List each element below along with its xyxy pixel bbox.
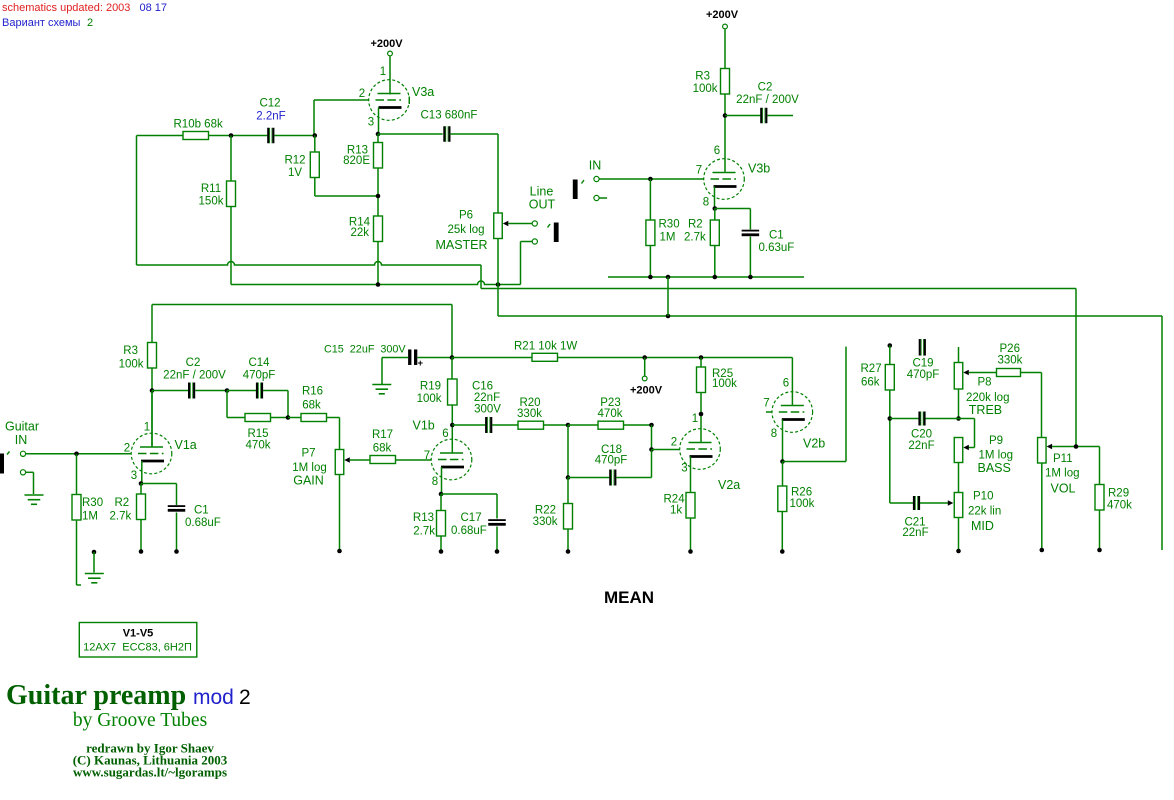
svg-text:470pF: 470pF xyxy=(595,455,628,467)
svg-text:V3b: V3b xyxy=(748,162,770,176)
svg-text:1V: 1V xyxy=(288,167,302,179)
svg-text:Guitar preamp: Guitar preamp xyxy=(6,680,186,711)
svg-text:1M log: 1M log xyxy=(979,449,1014,461)
svg-text:V3a: V3a xyxy=(412,85,434,99)
svg-text:100k: 100k xyxy=(417,393,442,405)
svg-text:3: 3 xyxy=(368,117,374,129)
svg-text:7: 7 xyxy=(696,165,702,177)
svg-text:6: 6 xyxy=(442,428,448,440)
svg-text:V1a: V1a xyxy=(175,438,197,452)
svg-text:2.7k: 2.7k xyxy=(110,511,132,523)
svg-text:by Groove Tubes: by Groove Tubes xyxy=(73,710,207,731)
svg-text:8: 8 xyxy=(703,197,709,209)
svg-text:C16: C16 xyxy=(472,381,493,393)
svg-text:2: 2 xyxy=(124,443,130,455)
svg-text:Вариант схемы: Вариант схемы xyxy=(2,17,81,29)
svg-text:2: 2 xyxy=(671,437,677,449)
svg-text:1M: 1M xyxy=(660,232,676,244)
svg-text:22nF: 22nF xyxy=(474,392,500,404)
svg-text:3: 3 xyxy=(131,470,137,482)
svg-text:22nF / 200V: 22nF / 200V xyxy=(736,94,799,106)
svg-text:C1: C1 xyxy=(769,230,784,242)
svg-text:2: 2 xyxy=(87,17,93,29)
svg-text:R2: R2 xyxy=(115,497,130,509)
svg-text:R26: R26 xyxy=(791,487,812,499)
svg-text:C17: C17 xyxy=(461,512,482,524)
svg-text:GAIN: GAIN xyxy=(293,474,324,488)
svg-text:1k: 1k xyxy=(670,505,682,517)
svg-text:V1b: V1b xyxy=(413,419,435,433)
svg-text:C19: C19 xyxy=(912,357,933,369)
svg-text:1: 1 xyxy=(380,66,386,78)
svg-text:R27: R27 xyxy=(861,363,882,375)
svg-text:mod: mod xyxy=(193,686,234,709)
svg-text:P11: P11 xyxy=(1053,453,1073,465)
svg-text:V2a: V2a xyxy=(718,478,740,492)
svg-text:8: 8 xyxy=(432,476,438,488)
svg-text:VOL: VOL xyxy=(1051,482,1076,496)
svg-text:BASS: BASS xyxy=(978,461,1011,475)
svg-text:2.7k: 2.7k xyxy=(684,232,706,244)
svg-text:R2: R2 xyxy=(688,219,703,231)
svg-text:12AX7 ECC83, 6Н2П: 12AX7 ECC83, 6Н2П xyxy=(83,642,192,654)
svg-text:R11: R11 xyxy=(201,183,221,195)
svg-text:2.2nF: 2.2nF xyxy=(256,111,285,123)
svg-text:R17: R17 xyxy=(372,429,393,441)
svg-text:Guitar: Guitar xyxy=(5,420,39,434)
svg-text:100k: 100k xyxy=(790,498,815,510)
svg-text:7: 7 xyxy=(424,450,430,462)
svg-text:+200V: +200V xyxy=(630,385,663,397)
svg-text:25k log: 25k log xyxy=(447,224,484,236)
svg-text:2: 2 xyxy=(239,686,251,709)
svg-text:R13: R13 xyxy=(413,512,434,524)
svg-text:IN: IN xyxy=(15,433,28,447)
svg-text:100k: 100k xyxy=(693,83,718,95)
svg-text:schematics updated: 2003: schematics updated: 2003 xyxy=(2,2,130,14)
svg-text:R29: R29 xyxy=(1108,488,1129,500)
svg-text:470pF: 470pF xyxy=(243,370,276,382)
svg-text:330k: 330k xyxy=(533,516,558,528)
svg-text:820E: 820E xyxy=(343,155,370,167)
svg-text:C1: C1 xyxy=(194,505,209,517)
svg-text:C20: C20 xyxy=(911,428,932,440)
svg-text:3: 3 xyxy=(681,463,687,475)
svg-text:R15: R15 xyxy=(247,428,268,440)
svg-text:8: 8 xyxy=(771,428,777,440)
svg-text:V1-V5: V1-V5 xyxy=(123,628,154,640)
svg-text:R3: R3 xyxy=(123,345,138,357)
svg-text:MEAN: MEAN xyxy=(604,588,654,607)
svg-text:1: 1 xyxy=(144,422,150,434)
svg-text:R30: R30 xyxy=(82,497,103,509)
svg-text:C2: C2 xyxy=(758,82,773,94)
svg-text:P10: P10 xyxy=(973,491,993,503)
svg-text:2: 2 xyxy=(359,88,365,100)
svg-text:100k: 100k xyxy=(712,378,737,390)
svg-text:www.sugardas.lt/~lgoramps: www.sugardas.lt/~lgoramps xyxy=(73,765,227,780)
svg-text:R21 10k 1W: R21 10k 1W xyxy=(514,341,577,353)
svg-text:R30: R30 xyxy=(659,219,680,231)
svg-text:7: 7 xyxy=(763,398,769,410)
svg-text:P26: P26 xyxy=(1000,343,1020,355)
svg-text:R22: R22 xyxy=(535,505,556,517)
svg-text:66k: 66k xyxy=(861,377,880,389)
svg-text:22k: 22k xyxy=(350,227,369,239)
svg-text:22nF / 200V: 22nF / 200V xyxy=(163,370,226,382)
svg-text:68k: 68k xyxy=(302,400,321,412)
svg-text:220k log: 220k log xyxy=(966,392,1009,404)
svg-text:150k: 150k xyxy=(199,196,224,208)
svg-text:330k: 330k xyxy=(998,355,1023,367)
svg-text:470k: 470k xyxy=(246,440,271,452)
svg-text:OUT: OUT xyxy=(529,198,556,212)
svg-text:22nF: 22nF xyxy=(902,527,928,539)
svg-text:P7: P7 xyxy=(301,448,315,460)
svg-text:R19: R19 xyxy=(420,381,441,393)
svg-text:2.7k: 2.7k xyxy=(413,526,435,538)
svg-text:R10b 68k: R10b 68k xyxy=(174,119,223,131)
svg-text:0.68uF: 0.68uF xyxy=(185,517,221,529)
svg-text:P6: P6 xyxy=(459,210,473,222)
svg-text:68k: 68k xyxy=(373,443,392,455)
svg-text:22nF: 22nF xyxy=(908,440,934,452)
svg-text:330k: 330k xyxy=(517,408,542,420)
svg-text:R16: R16 xyxy=(302,386,323,398)
svg-text:+200V: +200V xyxy=(706,9,739,21)
svg-text:1M log: 1M log xyxy=(1045,468,1080,480)
svg-text:IN: IN xyxy=(589,159,602,173)
svg-text:C15 22uF 300V: C15 22uF 300V xyxy=(324,344,406,356)
svg-text:22k lin: 22k lin xyxy=(968,506,1001,518)
svg-text:470k: 470k xyxy=(598,408,623,420)
svg-text:1M: 1M xyxy=(82,511,98,523)
svg-text:P8: P8 xyxy=(978,377,992,389)
svg-text:TREB: TREB xyxy=(969,403,1002,417)
svg-text:R3: R3 xyxy=(695,71,710,83)
svg-text:1M log: 1M log xyxy=(292,462,327,474)
svg-text:R12: R12 xyxy=(284,155,305,167)
svg-text:1: 1 xyxy=(692,413,698,425)
svg-text:+: + xyxy=(418,358,424,369)
svg-text:C13 680nF: C13 680nF xyxy=(421,110,478,122)
svg-text:+200V: +200V xyxy=(370,38,403,50)
svg-text:C14: C14 xyxy=(248,357,270,369)
svg-text:Line: Line xyxy=(530,185,554,199)
svg-text:470pF: 470pF xyxy=(907,369,940,381)
svg-text:100k: 100k xyxy=(119,359,144,371)
svg-text:470k: 470k xyxy=(1107,500,1132,512)
svg-text:300V: 300V xyxy=(474,404,501,416)
svg-text:V2b: V2b xyxy=(803,437,825,451)
svg-text:08 17: 08 17 xyxy=(140,2,168,14)
svg-text:0.63uF: 0.63uF xyxy=(759,242,795,254)
svg-text:C2: C2 xyxy=(186,357,201,369)
svg-text:P9: P9 xyxy=(989,435,1003,447)
svg-text:6: 6 xyxy=(783,378,789,390)
svg-text:MASTER: MASTER xyxy=(435,238,487,252)
svg-text:0.68uF: 0.68uF xyxy=(451,525,487,537)
svg-text:MID: MID xyxy=(971,519,994,533)
svg-text:6: 6 xyxy=(714,145,720,157)
svg-text:C12: C12 xyxy=(259,98,280,110)
